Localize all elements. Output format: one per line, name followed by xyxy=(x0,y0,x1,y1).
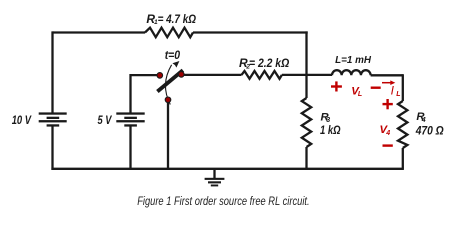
svg-text:Figure 1 First order source fr: Figure 1 First order source free RL circ… xyxy=(137,194,309,208)
svg-text:10 V: 10 V xyxy=(12,113,32,127)
svg-text:4: 4 xyxy=(385,130,390,137)
svg-text:= 2.2 kΩ: = 2.2 kΩ xyxy=(249,56,290,70)
svg-text:= 4.7 kΩ: = 4.7 kΩ xyxy=(158,12,197,26)
svg-text:470 Ω: 470 Ω xyxy=(415,123,444,137)
svg-text:L: L xyxy=(396,91,400,98)
svg-text:L: L xyxy=(358,91,362,98)
svg-text:1 kΩ: 1 kΩ xyxy=(320,123,341,137)
svg-text:t=0: t=0 xyxy=(165,48,181,62)
svg-text:5 V: 5 V xyxy=(98,113,113,127)
svg-text:L=1 mH: L=1 mH xyxy=(335,55,372,66)
